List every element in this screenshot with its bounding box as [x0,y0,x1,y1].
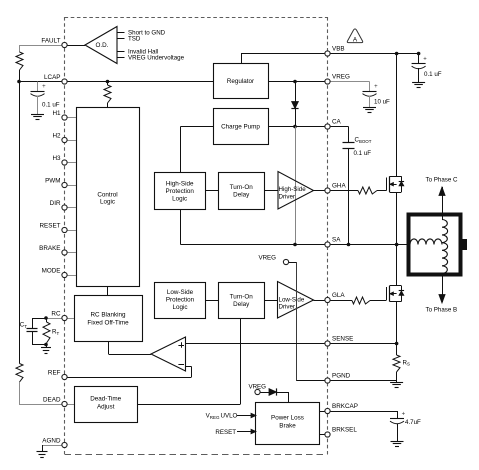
svg-text:LCAP: LCAP [44,74,60,81]
svg-text:H1: H1 [52,110,61,117]
svg-text:CA: CA [332,119,342,126]
svg-text:To Phase B: To Phase B [426,307,458,314]
svg-text:0.1 uF: 0.1 uF [424,71,442,78]
svg-text:Delay: Delay [233,192,250,199]
svg-text:PWM: PWM [45,177,60,184]
svg-text:Charge Pump: Charge Pump [221,124,260,131]
svg-text:VREG: VREG [258,254,276,261]
svg-text:Driver: Driver [279,304,296,311]
svg-text:RC: RC [51,310,61,317]
svg-text:High-Side: High-Side [279,186,307,193]
svg-text:GLA: GLA [332,292,345,299]
svg-text:Fixed Off-Time: Fixed Off-Time [87,320,129,327]
svg-text:+: + [423,56,427,62]
svg-text:REF: REF [48,369,61,376]
svg-text:Power Loss: Power Loss [271,415,304,422]
svg-text:BRKCAP: BRKCAP [332,403,358,410]
svg-text:High-Side: High-Side [166,181,194,188]
svg-text:H2: H2 [52,132,61,139]
svg-text:O.D.: O.D. [96,42,109,49]
svg-text:RC Blanking: RC Blanking [91,312,126,319]
svg-text:+: + [374,84,378,90]
svg-text:VREG Undervoltage: VREG Undervoltage [128,54,185,61]
svg-text:PGND: PGND [332,373,351,380]
svg-text:FAULT: FAULT [41,37,60,44]
svg-text:Regulator: Regulator [227,78,254,85]
svg-text:Logic: Logic [172,304,187,311]
svg-text:10 uF: 10 uF [374,98,390,105]
svg-text:Low-Side: Low-Side [279,296,305,303]
svg-text:VREG: VREG [332,74,350,81]
svg-text:SENSE: SENSE [332,336,353,343]
svg-text:VBB: VBB [332,46,345,53]
svg-text:Brake: Brake [279,423,296,430]
svg-text:Logic: Logic [172,196,187,203]
svg-text:+: + [402,411,406,417]
svg-text:H3: H3 [52,155,61,162]
svg-text:Control: Control [97,192,117,199]
svg-text:Turn-On: Turn-On [230,294,254,301]
svg-text:AGND: AGND [42,437,61,444]
svg-text:SA: SA [332,237,341,244]
svg-text:RESET: RESET [40,222,61,229]
svg-text:Low-Side: Low-Side [167,289,194,296]
svg-text:UVLO: UVLO [221,413,238,420]
svg-text:BRKSEL: BRKSEL [332,427,357,434]
svg-text:TSD: TSD [128,35,141,42]
svg-text:MODE: MODE [42,267,61,274]
svg-text:Delay: Delay [233,301,250,308]
svg-text:Protection: Protection [166,188,195,195]
svg-text:To Phase C: To Phase C [426,176,459,183]
svg-text:4.7uF: 4.7uF [405,419,421,426]
svg-text:Adjust: Adjust [97,404,115,411]
svg-text:Dead-Time: Dead-Time [90,396,121,403]
svg-text:Turn-On: Turn-On [230,184,254,191]
svg-text:0.1 uF: 0.1 uF [42,102,60,109]
svg-text:Protection: Protection [166,297,195,304]
svg-text:BRAKE: BRAKE [39,245,60,252]
svg-text:Logic: Logic [100,199,115,206]
svg-text:DIR: DIR [50,200,61,207]
svg-text:0.1 uF: 0.1 uF [354,150,372,157]
svg-text:+: + [42,84,46,90]
svg-text:Driver: Driver [279,193,296,200]
svg-text:RESET: RESET [215,429,236,436]
svg-text:A: A [353,37,358,44]
svg-text:DEAD: DEAD [43,396,61,403]
svg-text:GHA: GHA [332,183,346,190]
